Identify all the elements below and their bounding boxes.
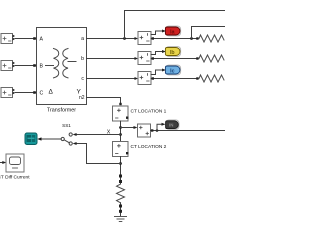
svg-text:A: A (40, 37, 44, 43)
svg-text:CT Diff Current: CT Diff Current (0, 175, 30, 181)
wire transformer c to current meas I3 (87, 77, 139, 80)
node Y1 (below CT2) (119, 162, 122, 165)
AC voltage source V3 (1, 88, 15, 98)
resistor R4 (grounding branch) (117, 184, 125, 203)
svg-text:Transformer: Transformer (47, 108, 76, 114)
AC voltage source V1 (1, 34, 15, 44)
svg-text:a: a (81, 36, 84, 42)
svg-text:Ic: Ic (170, 68, 174, 74)
resistor R3 (load branch phase c) (199, 75, 224, 82)
AC voltage source V2 (1, 61, 15, 71)
transformer T1 (three-phase, Delta-Y) (37, 28, 87, 114)
svg-text:Ia: Ia (170, 29, 174, 35)
resistor R2 (load branch phase b) (199, 55, 224, 62)
wire bypass from node B1 (192, 27, 226, 39)
wire I1 to resistor R1 (151, 37, 199, 39)
ground (115, 217, 127, 222)
wire node Y1 to switch lower contact (73, 142, 121, 164)
wire V1 to transformer port A (15, 37, 37, 40)
wire R4 to ground (120, 203, 122, 216)
secondary lead (68, 61, 76, 63)
svg-text:IN: IN (169, 123, 173, 128)
wire CT2 to branch R4 (120, 157, 122, 185)
signal wire I1 to goto tag Ia (151, 30, 166, 35)
wire switch to scope tag (37, 137, 61, 140)
sum block U1 (138, 124, 151, 137)
current measurement CT2 (113, 142, 129, 157)
resistor R1 (load branch phase a) (199, 35, 224, 42)
svg-text:CT LOCATION 1: CT LOCATION 1 (131, 109, 167, 115)
current measurement CT1 (113, 106, 129, 121)
svg-text:b: b (81, 56, 84, 62)
wire I3 to resistor R3 (151, 77, 199, 79)
wire U1 output to edge (151, 129, 226, 131)
node A1 (junction on phase a) (123, 37, 126, 40)
current measurement I3 (138, 72, 151, 85)
signal wire I3 to goto tag Ic (151, 69, 166, 75)
node B1 (junction before R1) (190, 37, 193, 40)
primary winding (54, 49, 59, 78)
wire transformer a to current meas I1 (87, 37, 139, 40)
node on U1 output (156, 129, 159, 132)
current measurement I2 (138, 52, 151, 65)
svg-text:Y: Y (77, 89, 82, 96)
node X (119, 133, 122, 136)
manual switch SS1 (61, 133, 72, 145)
wire node X to switch upper contact (73, 133, 121, 136)
svg-text:Ib: Ib (170, 50, 175, 56)
wire node to sum U1 (121, 126, 138, 129)
svg-text:C: C (40, 91, 44, 97)
wire into scope (0, 161, 6, 164)
wire transformer n2 to CT1 (87, 98, 122, 106)
svg-text:CT LOCATION 2: CT LOCATION 2 (131, 144, 167, 150)
teal display block (25, 133, 37, 145)
current measurement I1 (138, 32, 151, 45)
port squares on branch R4 (119, 175, 122, 178)
wire CT1 to CT2 (120, 121, 122, 142)
svg-text:c: c (81, 76, 84, 82)
svg-text:n2: n2 (79, 95, 85, 101)
secondary winding (63, 49, 68, 78)
primary lead (46, 65, 54, 67)
goto tag IN (166, 120, 179, 129)
wire transformer b to current meas I2 (87, 57, 139, 60)
node sum-tap (119, 126, 122, 129)
signal wire to goto tag IN (157, 123, 166, 131)
goto tag Ic (165, 65, 180, 75)
svg-text:Δ: Δ (49, 89, 54, 96)
wire V2 to transformer port B (15, 64, 37, 67)
wire I2 to resistor R2 (151, 57, 199, 59)
wire top bypass from node A1 (125, 11, 226, 39)
scope Diff Current (6, 154, 24, 172)
goto tag Ib (165, 47, 180, 57)
signal wire I2 to goto tag Ib (151, 50, 166, 55)
svg-text:SS1: SS1 (62, 123, 71, 128)
goto tag Ia (165, 26, 180, 36)
svg-text:B: B (40, 64, 44, 70)
wire V3 to transformer port C (15, 91, 37, 94)
